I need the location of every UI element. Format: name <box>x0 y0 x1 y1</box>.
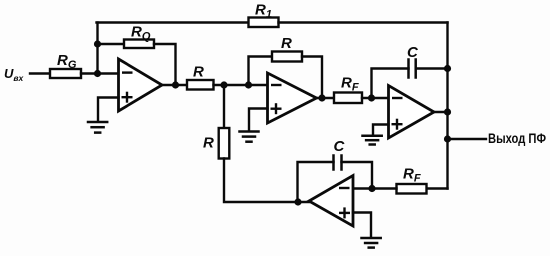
wire U4 noninverting input to ground <box>353 213 371 238</box>
op-amp U4 <box>309 176 353 227</box>
node feedback R tap <box>245 81 252 88</box>
wire node B down to vertical R <box>223 85 225 128</box>
capacitor C1 <box>409 60 416 78</box>
wire node A vertical riser <box>96 23 98 74</box>
wire RQ to U1 output node <box>154 44 176 85</box>
resistor RG <box>50 69 81 78</box>
capacitor C2 <box>334 156 342 170</box>
resistor R1 <box>249 18 279 28</box>
wire right bus vertical <box>446 23 448 189</box>
node U3 inverting input <box>368 94 375 101</box>
node U3 output bus junction <box>444 108 451 115</box>
op-amp U3 <box>389 86 435 139</box>
node U4 inverting input <box>368 185 375 192</box>
wire feedback R down to U2 output <box>302 57 322 99</box>
label U3 minus <box>392 97 403 99</box>
wire U2 noninverting input to ground <box>249 109 268 132</box>
wire RF to U3 inverting input <box>362 97 389 99</box>
label U1 minus <box>122 71 133 73</box>
label U2 minus <box>271 84 282 86</box>
svg-text:R: R <box>281 35 292 52</box>
wire RG to op-amp U1 inverting input <box>81 72 119 74</box>
svg-text:C: C <box>407 44 419 61</box>
node U1 output <box>172 81 179 88</box>
resistor R4 (feedback R of U2) <box>272 52 302 62</box>
wire U2 output to RF <box>317 97 335 99</box>
wire top feedback right segment <box>279 21 448 23</box>
wire RF2 to U4 inverting input <box>353 187 397 189</box>
wire capacitor C1 to bus <box>416 67 448 69</box>
wire U1 output to R <box>162 84 187 86</box>
resistor RQ <box>124 40 154 49</box>
resistor RF1 <box>334 93 362 104</box>
node A (RQ tap) <box>94 40 101 47</box>
op-amp U2 <box>268 73 317 123</box>
wire top feedback left segment <box>97 21 249 23</box>
wire U3 output to bus <box>434 111 448 113</box>
node C1 bus junction <box>444 65 451 72</box>
node U2 output <box>318 94 325 101</box>
wire input lead <box>30 72 50 74</box>
node U4 output <box>294 198 301 205</box>
label U4 minus <box>339 187 350 189</box>
label U3 plus <box>392 119 403 130</box>
wire bus bottom to RF2 <box>427 187 448 189</box>
ground GND3 <box>363 136 382 145</box>
wire output tap <box>448 138 487 140</box>
wire U1 noninverting input to ground <box>98 98 119 122</box>
op-amp U1 <box>119 59 163 111</box>
wire U3 noninverting input to ground <box>373 125 389 136</box>
wire vertical R down and across to U4 output <box>224 159 309 203</box>
wire U4 output node up to capacitor C2 <box>298 162 334 202</box>
ground GND1 <box>88 122 107 133</box>
resistor R2 (input R of U2) <box>187 80 214 90</box>
label U1 plus <box>122 92 133 103</box>
ground GND2 <box>240 132 259 142</box>
svg-text:R: R <box>203 135 214 152</box>
svg-text:Выход ПФ: Выход ПФ <box>488 131 546 146</box>
node output tap <box>444 135 451 142</box>
ground GND4 <box>362 238 381 248</box>
node B (input junction) <box>94 70 101 77</box>
resistor RF2 <box>397 184 427 194</box>
resistor R3 (vertical) <box>219 128 230 159</box>
label U2 plus <box>271 103 282 114</box>
svg-text:R: R <box>193 64 204 81</box>
wire capacitor C2 down to U4 inverting node <box>342 162 373 189</box>
svg-text:C: C <box>334 138 346 155</box>
node R vertical tap <box>220 81 227 88</box>
label U4 plus <box>339 207 350 218</box>
wire node C up to feedback R of U2 <box>249 57 273 86</box>
wire R to U2 inverting input <box>214 84 268 86</box>
wire node A to RQ <box>98 43 125 45</box>
wire node D up to capacitor C1 <box>372 69 409 99</box>
